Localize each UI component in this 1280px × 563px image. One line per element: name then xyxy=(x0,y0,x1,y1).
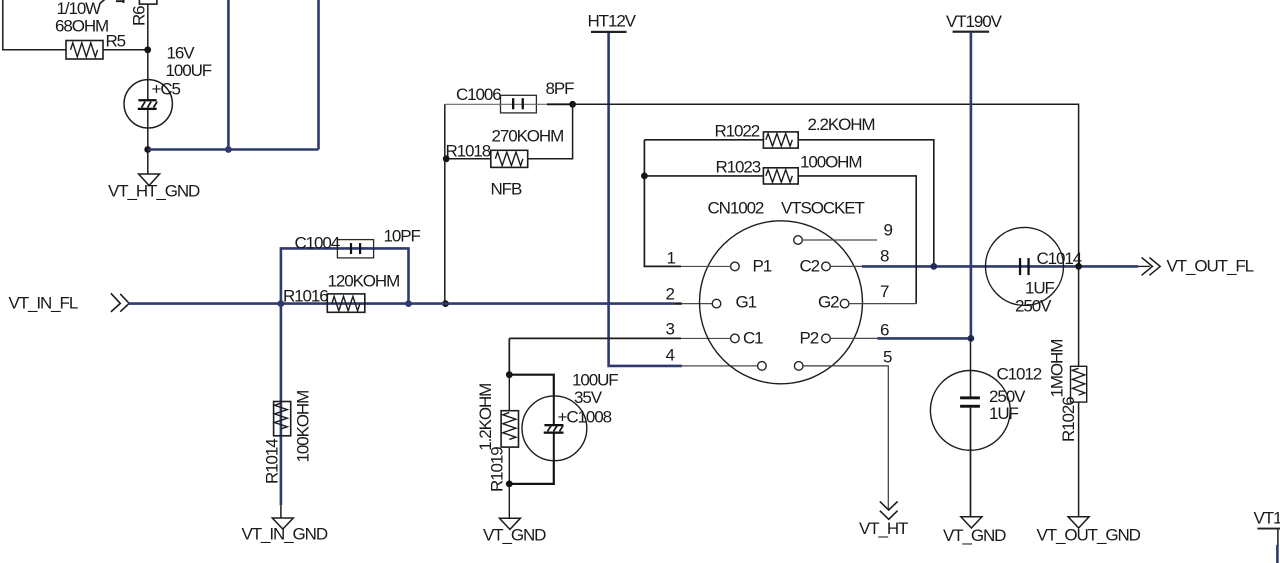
cut text fragments at top edge xyxy=(101,0,125,3)
wire R5 to node xyxy=(103,49,148,51)
blue node C1004 left / R1014 xyxy=(278,300,285,307)
svg-text:R1022: R1022 xyxy=(715,122,760,141)
resistor R5 xyxy=(55,0,126,59)
svg-text:R5: R5 xyxy=(106,32,126,51)
blue output line xyxy=(862,265,1138,268)
wire R1026 to ground xyxy=(1078,402,1080,517)
resistor R1026 1MOHM xyxy=(1048,340,1087,442)
ground VT_GND (under R1019/C1008) xyxy=(483,518,546,544)
output port VT_OUT_FL xyxy=(1138,257,1253,276)
capacitor C1008 (electrolytic 100UF 35V) xyxy=(522,371,618,461)
svg-text:VT_IN_GND: VT_IN_GND xyxy=(242,525,328,544)
wire pin3 line xyxy=(509,337,681,339)
wire left-edge L to R5 xyxy=(3,0,66,50)
svg-text:C1006: C1006 xyxy=(456,85,501,104)
resistor R1023 100OHM xyxy=(716,152,862,184)
wire pin P2 to blue xyxy=(830,337,877,339)
svg-text:100UF: 100UF xyxy=(166,61,212,80)
wire rail node down to C1012 xyxy=(970,338,972,396)
svg-text:6: 6 xyxy=(880,321,889,340)
svg-text:8PF: 8PF xyxy=(546,79,575,98)
svg-text:P1: P1 xyxy=(753,257,772,276)
node R1019/C1008 top xyxy=(506,371,513,378)
node 8PF junction xyxy=(569,101,576,108)
svg-text:CN1002: CN1002 xyxy=(708,199,764,218)
svg-text:R1023: R1023 xyxy=(716,157,761,176)
svg-text:C2: C2 xyxy=(800,257,820,276)
wire R1018 right up to 8PF node xyxy=(528,104,573,159)
node R1018/C1006 left xyxy=(443,155,450,162)
svg-text:R1019: R1019 xyxy=(488,447,507,492)
pin C2 xyxy=(822,262,831,271)
feedback wire top (8PF node to output node) xyxy=(573,104,1079,266)
svg-text:VT_HT: VT_HT xyxy=(859,519,908,538)
wire R1022 left xyxy=(644,139,763,141)
blue input line VT_IN_FL to pin2 xyxy=(128,302,674,305)
ground VT_HT_GND xyxy=(108,174,200,201)
resistor R1016 120KOHM (on blue line) xyxy=(283,271,399,312)
svg-text:VT_HT_GND: VT_HT_GND xyxy=(108,182,200,201)
svg-text:VT190V: VT190V xyxy=(946,12,1003,31)
svg-text:+C1008: +C1008 xyxy=(558,407,612,426)
blue junction dot xyxy=(225,146,232,153)
svg-text:R1018: R1018 xyxy=(446,142,491,161)
pin 4 circle xyxy=(758,362,767,371)
svg-text:G1: G1 xyxy=(736,293,757,312)
pin C1 xyxy=(731,334,740,343)
power rail VT190V (bottom right, cut) xyxy=(1254,509,1280,563)
input port VT_IN_FL xyxy=(9,293,130,312)
node pin6/rail (navy) xyxy=(968,335,975,342)
svg-text:1MOHM: 1MOHM xyxy=(1048,340,1067,398)
node R1019/C1008 bottom xyxy=(506,481,513,488)
svg-text:HT12V: HT12V xyxy=(588,11,637,30)
wire pin C2 to blue xyxy=(830,265,862,267)
wire pin3 corner down xyxy=(508,338,510,374)
svg-text:G2: G2 xyxy=(818,293,839,312)
svg-text:VT_GND: VT_GND xyxy=(943,526,1006,545)
svg-text:68OHM: 68OHM xyxy=(55,17,108,36)
svg-text:R1014: R1014 xyxy=(263,439,282,484)
svg-text:35V: 35V xyxy=(574,388,603,407)
wire pin5 down to VT_HT xyxy=(803,366,889,510)
svg-text:1: 1 xyxy=(667,249,676,268)
svg-text:R1026: R1026 xyxy=(1059,397,1078,442)
blue wire vertical x=228 xyxy=(227,0,230,150)
svg-text:VT_IN_FL: VT_IN_FL xyxy=(9,294,78,313)
wire C1006 left lead down to R1018 node xyxy=(444,104,446,159)
svg-text:1UF: 1UF xyxy=(989,404,1019,423)
wire node to C5 xyxy=(147,50,149,100)
svg-text:270KOHM: 270KOHM xyxy=(492,126,564,145)
power rail HT12V xyxy=(588,11,637,33)
wire R1023 left xyxy=(644,175,763,177)
ground VT_OUT_GND xyxy=(1037,517,1141,545)
node junction C5/blue wire xyxy=(144,146,151,153)
svg-text:R6: R6 xyxy=(130,6,149,26)
svg-text:7: 7 xyxy=(880,282,889,301)
svg-text:5: 5 xyxy=(883,348,892,367)
svg-text:2: 2 xyxy=(666,285,675,304)
resistor R6 (cut off at top) xyxy=(130,0,157,26)
svg-text:NFB: NFB xyxy=(491,180,522,199)
svg-text:10PF: 10PF xyxy=(384,227,421,246)
arrow VT_HT (down double chevron) xyxy=(859,501,908,537)
svg-text:9: 9 xyxy=(884,221,893,240)
node R1022/output (navy) xyxy=(930,263,937,270)
svg-text:P2: P2 xyxy=(800,329,819,348)
svg-text:120KOHM: 120KOHM xyxy=(328,271,400,290)
resistor R1014 100KOHM branch (blue through) xyxy=(280,304,283,506)
resistor R1022 2.2KOHM xyxy=(715,115,875,148)
capacitor C1006 8PF xyxy=(445,79,574,113)
svg-text:C1004: C1004 xyxy=(295,234,340,253)
svg-text:C1: C1 xyxy=(743,329,763,348)
pin P1 xyxy=(731,262,740,271)
svg-text:R1016: R1016 xyxy=(283,287,328,306)
capacitor C1004 10PF branch (blue) xyxy=(281,248,409,303)
wire R6 to node xyxy=(147,4,149,50)
wire pin2 stub xyxy=(674,302,682,304)
tube socket CN1002 VTSOCKET xyxy=(700,199,865,384)
capacitor C1008 branch wires (thick) xyxy=(509,375,554,397)
svg-text:100UF: 100UF xyxy=(572,371,618,390)
blue wire pin6 to VT190V rail xyxy=(877,337,971,340)
svg-text:VT_GND: VT_GND xyxy=(483,526,546,545)
svg-text:3: 3 xyxy=(666,320,675,339)
resistor R1019 1.2KOHM xyxy=(508,375,510,411)
blue node C1004 right xyxy=(405,300,412,307)
svg-text:1UF: 1UF xyxy=(1025,279,1055,298)
svg-text:VT_OUT_GND: VT_OUT_GND xyxy=(1037,525,1141,544)
node output/feedback/R1026 xyxy=(1075,263,1082,270)
wire to VT_HT_GND xyxy=(147,150,149,175)
svg-text:VTSOCKET: VTSOCKET xyxy=(781,199,865,218)
svg-text:250V: 250V xyxy=(989,387,1026,406)
capacitor C1014 1UF 250V xyxy=(986,227,1082,315)
wire R1018 left xyxy=(446,158,491,160)
pin G2 xyxy=(840,299,849,308)
ground VT_IN_GND xyxy=(242,518,328,544)
blue wire vertical x=318.5 xyxy=(317,0,320,150)
svg-text:2.2KOHM: 2.2KOHM xyxy=(808,115,875,134)
svg-text:16V: 16V xyxy=(167,44,196,63)
blue wire horizontal top-left xyxy=(148,148,319,151)
node NFB on input line xyxy=(442,300,449,307)
capacitor C1012 250V 1UF xyxy=(930,365,1041,451)
svg-text:C1012: C1012 xyxy=(997,365,1042,384)
svg-text:250V: 250V xyxy=(1015,297,1052,316)
wire pin G2 to R1023 xyxy=(849,303,917,305)
wire pin1 path xyxy=(644,140,681,267)
svg-text:4: 4 xyxy=(666,346,675,365)
svg-text:8: 8 xyxy=(880,247,889,266)
node R1023/pin1 line xyxy=(641,173,648,180)
resistor R1018 270KOHM NFB xyxy=(446,126,564,198)
pin 9 circle xyxy=(794,236,803,245)
node junction R5/R6/C5 xyxy=(144,46,151,53)
svg-text:1.2KOHM: 1.2KOHM xyxy=(476,384,495,451)
wire R1022 right down to output line xyxy=(798,140,934,267)
capacitor C5 (electrolytic 16V 100UF) xyxy=(124,44,212,129)
wire C5 to ground node xyxy=(147,110,149,150)
wire R1023 right down to G2 xyxy=(798,176,916,304)
wire NFB node down to input line xyxy=(444,159,446,304)
svg-text:+C5: +C5 xyxy=(152,80,181,99)
wire C1012 to ground xyxy=(970,408,972,517)
svg-text:VT190V: VT190V xyxy=(1254,509,1280,528)
pin 5 circle xyxy=(794,362,803,371)
svg-text:C1014: C1014 xyxy=(1037,249,1082,268)
wire to VT_IN_GND xyxy=(280,505,282,518)
blue wire VT190V rail down to pin6 xyxy=(970,33,973,339)
svg-text:1/10W: 1/10W xyxy=(57,0,102,18)
svg-text:100OHM: 100OHM xyxy=(800,152,861,171)
wire pin9 xyxy=(802,239,877,241)
svg-text:100KOHM: 100KOHM xyxy=(294,391,313,463)
pin P2 xyxy=(822,334,831,343)
ground VT_GND (under C1012) xyxy=(943,517,1006,545)
svg-text:VT_OUT_FL: VT_OUT_FL xyxy=(1167,257,1254,276)
pin G1 xyxy=(712,299,721,308)
power rail VT190V xyxy=(946,12,1003,33)
wire pin4 stub xyxy=(682,365,758,367)
wire node to R1026 xyxy=(1078,266,1080,366)
wire HT12V rail (blue) to pin 4 xyxy=(609,33,682,366)
